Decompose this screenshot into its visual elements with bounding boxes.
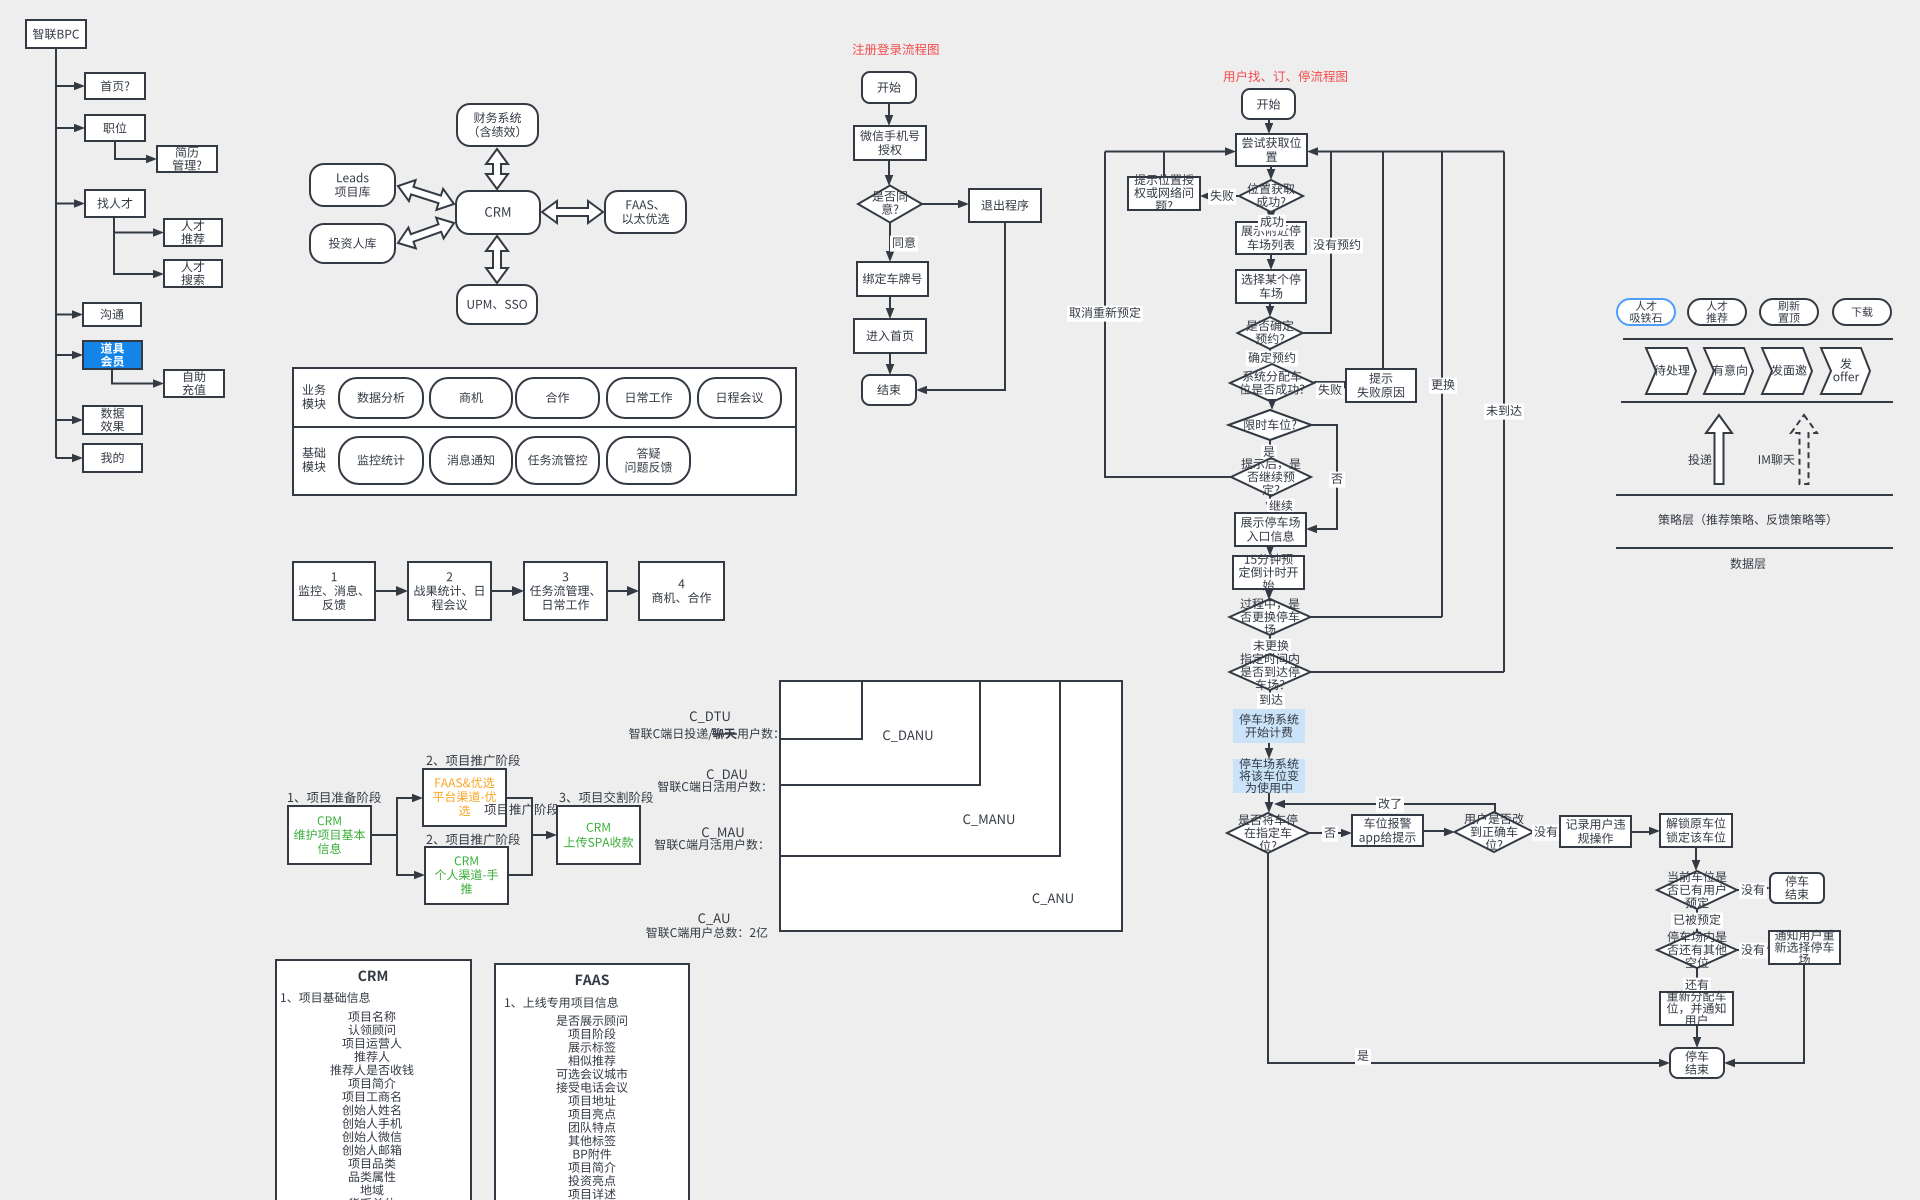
label 改了 bbox=[1376, 797, 1404, 813]
node 重新分配车位并通知用户 bbox=[1660, 992, 1733, 1025]
node Leads项目库 bbox=[310, 164, 395, 206]
node 是否确定预约 bbox=[1238, 317, 1303, 349]
node 提示失败原因 bbox=[1346, 369, 1416, 402]
wire 取消重新预定 loop bbox=[1105, 152, 1231, 478]
wire D2-D3 bbox=[491, 590, 512, 592]
node 绑定车牌号 bbox=[857, 262, 928, 296]
label 没有2 bbox=[1739, 883, 1767, 899]
node UPM、SSO bbox=[457, 285, 537, 324]
label 已被预定 bbox=[1671, 913, 1723, 929]
wire D1-D2 bbox=[375, 590, 396, 592]
node 找人才 bbox=[85, 190, 145, 217]
label 否1 bbox=[1329, 472, 1345, 488]
wire 分配-限时车位 bbox=[1271, 402, 1273, 403]
wire FAAS-合并 bbox=[506, 798, 532, 875]
wire 提示授权-top bbox=[1163, 152, 1165, 178]
node 商机 bbox=[430, 378, 512, 418]
node 人才搜索 bbox=[164, 260, 222, 287]
node 车位报警app给提示 bbox=[1352, 815, 1423, 846]
wire 合并-交割 bbox=[532, 834, 546, 836]
wire 找人才-人才推荐 bbox=[114, 217, 153, 233]
wire 尝试-位置获取成功 bbox=[1270, 166, 1272, 172]
node 进入首页 bbox=[854, 319, 926, 353]
node 停车结束2 bbox=[1670, 1048, 1724, 1078]
node CRM上传SPA收款 bbox=[557, 806, 640, 864]
label 失败 bbox=[1208, 189, 1236, 205]
label 成功 bbox=[1258, 215, 1286, 231]
wire 指定时间-未到达 bbox=[1310, 671, 1504, 673]
node 过程中是否更换停车场 bbox=[1230, 599, 1311, 635]
wire 位置成功-展示列表 bbox=[1270, 212, 1272, 214]
node C_DTU box bbox=[780, 681, 862, 739]
label 投递 bbox=[1688, 454, 1711, 465]
node 提示后是否继续预定 bbox=[1231, 458, 1311, 496]
node 记录用户违规操作 bbox=[1560, 816, 1631, 847]
wire 过程中-更换 bbox=[1310, 616, 1442, 618]
wire 没有预约 loop bbox=[1303, 152, 1331, 334]
wire 空位-还有-重新分配 bbox=[1696, 968, 1698, 984]
wire branch bbox=[56, 85, 75, 87]
node 停车场内是否还有其他空位 bbox=[1657, 932, 1737, 968]
node CRM表 bbox=[276, 960, 471, 1200]
node 退出程序 bbox=[969, 189, 1041, 222]
label 项目推广阶段1 bbox=[427, 754, 520, 766]
wire 用户改-没有-记录违规 bbox=[1534, 831, 1549, 833]
node 数据效果 bbox=[83, 406, 142, 434]
node 有意向 bbox=[1704, 348, 1753, 394]
wire CRM-FAAS bbox=[542, 201, 603, 223]
wire 找人才-人才搜索 bbox=[114, 232, 153, 274]
wire top-right horizontal bbox=[1318, 151, 1504, 153]
node E结束 bbox=[862, 375, 916, 405]
wire CRM-UPM bbox=[486, 236, 508, 283]
wire hr1 bbox=[1623, 338, 1893, 340]
node FAAS表 bbox=[495, 964, 689, 1200]
wire 是否同意-退出程序 bbox=[922, 203, 958, 205]
wire branch bbox=[56, 354, 73, 356]
wire 投资人库-CRM bbox=[398, 218, 454, 249]
wire 退出程序-E结束 bbox=[927, 222, 1005, 390]
wire 展示列表-选择停车场 bbox=[1270, 254, 1272, 261]
wire 职位-简历管理 bbox=[115, 141, 146, 159]
label 项目推广阶段2 bbox=[427, 833, 520, 845]
node 人才吸铁石 bbox=[1617, 299, 1675, 325]
node 当前车位是否已有用户预定 bbox=[1657, 871, 1737, 909]
label 同意 bbox=[890, 236, 918, 252]
node 微信手机号授权 bbox=[854, 126, 926, 160]
label 基础模块 bbox=[302, 447, 325, 458]
wire trunk 智联BPC bbox=[55, 48, 57, 458]
wire 停指定-是-停车结束2 bbox=[1268, 853, 1659, 1063]
label C_DTU bbox=[690, 711, 730, 723]
node 我的 bbox=[83, 444, 142, 472]
node 指定时间内是否到达停车场 bbox=[1230, 654, 1311, 690]
wire 解锁-当前车位 bbox=[1695, 847, 1697, 863]
label C_AU bbox=[698, 913, 729, 925]
wire 财务系统-CRM bbox=[486, 149, 508, 189]
wire D3-D4 bbox=[607, 590, 627, 592]
node 合作 bbox=[516, 378, 599, 418]
label 未更换 bbox=[1251, 639, 1291, 655]
label 用户找订停流程图 bbox=[1223, 70, 1347, 82]
node 人才推荐pill bbox=[1688, 299, 1746, 325]
node 下载 bbox=[1833, 299, 1891, 325]
wire 空位-没有-通知用户 bbox=[1737, 949, 1758, 951]
wire 开始计费-使用中 bbox=[1268, 743, 1270, 751]
wire 确定预约 down bbox=[1269, 349, 1271, 357]
node 提示位置授权或网络问题 bbox=[1128, 177, 1200, 210]
label IM聊天 bbox=[1759, 454, 1795, 465]
wire hr3 bbox=[1616, 494, 1893, 496]
node 待处理 bbox=[1646, 348, 1696, 394]
node CRM个人渠道手推 bbox=[425, 847, 508, 904]
wire branch bbox=[56, 419, 73, 421]
label C_DANU bbox=[883, 730, 932, 742]
label 没有1 bbox=[1532, 825, 1560, 841]
node 日常工作 bbox=[607, 378, 690, 418]
wire branch bbox=[56, 457, 73, 459]
label 注册登录流程图 bbox=[853, 43, 939, 55]
wire 重新分配-停车结束2 bbox=[1696, 1025, 1698, 1040]
node 财务系统(含绩效) bbox=[457, 104, 538, 146]
node 监控统计 bbox=[339, 437, 423, 484]
wire 阶段1-分支 bbox=[371, 798, 412, 835]
wire 停指定-否-车位报警 bbox=[1309, 832, 1341, 834]
label 是2 bbox=[1355, 1049, 1371, 1065]
label 项目推广阶段ghost bbox=[484, 803, 558, 815]
wire 当前-没有-停车结束1 bbox=[1737, 889, 1759, 891]
wire 阶段1-分支下 bbox=[397, 835, 414, 875]
label 没有3 bbox=[1739, 943, 1767, 959]
wire 当前-已被预定 bbox=[1696, 909, 1698, 932]
label 没有预约 bbox=[1311, 238, 1363, 254]
label 否2 bbox=[1322, 826, 1338, 842]
node 停车场系统开始计费 bbox=[1233, 709, 1305, 743]
label 项目准备阶段 bbox=[288, 791, 381, 803]
label C_MAU bbox=[702, 827, 743, 839]
wire 使用中-是否停指定车位 bbox=[1268, 793, 1270, 805]
label 更换 bbox=[1429, 378, 1457, 394]
node FAAS优选平台渠道 bbox=[423, 769, 506, 826]
node 数据分析 bbox=[339, 378, 423, 418]
wire Leads-CRM bbox=[398, 180, 454, 210]
node 2战果统计日程会议 bbox=[408, 562, 491, 620]
node 首页? bbox=[85, 73, 145, 99]
node 人才推荐 bbox=[164, 219, 222, 246]
node 日程会议 bbox=[698, 378, 781, 418]
node 限时车位 bbox=[1229, 410, 1312, 440]
node 15分钟预定倒计时开始 bbox=[1233, 556, 1304, 589]
node 展示附近停车场列表 bbox=[1236, 222, 1306, 254]
wire 继续 down bbox=[1269, 496, 1271, 505]
wire 限时-否-展示入口 bbox=[1311, 425, 1337, 529]
node 答疑问题反馈 bbox=[607, 437, 690, 484]
wire 展示入口-15分钟 bbox=[1269, 546, 1271, 548]
node 沟通 bbox=[83, 303, 141, 326]
node 发面邀 bbox=[1762, 348, 1812, 394]
node 职位 bbox=[85, 115, 145, 141]
node CRM维护项目基本信息 bbox=[288, 806, 371, 864]
node FAAS以太优选 bbox=[605, 191, 686, 233]
wire E开始-微信授权 bbox=[888, 103, 890, 117]
label 还有 bbox=[1683, 978, 1711, 994]
node 消息通知 bbox=[430, 437, 512, 484]
wire hr4 bbox=[1616, 547, 1893, 549]
label 是1 bbox=[1261, 445, 1277, 461]
wire 提示失败原因-top bbox=[1382, 152, 1384, 370]
wire 绑定车牌号-进入首页 bbox=[889, 296, 891, 310]
label 确定预约 bbox=[1246, 351, 1298, 367]
node 发offer bbox=[1821, 348, 1870, 394]
label C_DAU desc bbox=[658, 781, 765, 792]
label C_MAU desc bbox=[655, 839, 762, 850]
node E是否同意 bbox=[858, 186, 922, 223]
wire branch bbox=[56, 203, 75, 205]
node 简历管理? bbox=[157, 146, 217, 172]
wire 更换 riser bbox=[1441, 152, 1443, 618]
label 数据层 bbox=[1730, 558, 1765, 569]
node 任务流管控 bbox=[516, 437, 599, 484]
label C_MANU bbox=[963, 814, 1014, 826]
wire 车位报警-用户是否改 bbox=[1423, 830, 1444, 832]
wire 记录违规-解锁原车位 bbox=[1631, 831, 1649, 833]
label C_DTU desc bbox=[629, 728, 713, 740]
wire branch bbox=[56, 127, 75, 129]
label C_ANU bbox=[1033, 893, 1073, 905]
wire 微信授权-是否同意 bbox=[888, 160, 890, 177]
wire 15分钟-过程中 bbox=[1268, 589, 1270, 592]
node 刷新置顶 bbox=[1760, 299, 1818, 325]
node 投资人库 bbox=[310, 224, 395, 263]
wire 通知用户-停车结束2 bbox=[1735, 964, 1804, 1063]
wire 过程中-未更换-指定时间 bbox=[1269, 635, 1271, 654]
node 投递箭头 bbox=[1706, 415, 1732, 484]
wire 未到达 riser bbox=[1503, 152, 1505, 673]
label 取消重新预定 bbox=[1067, 306, 1143, 322]
wire 选择-是否确定预约 bbox=[1269, 303, 1271, 309]
wire branch bbox=[56, 314, 73, 316]
node 模块表格 bbox=[293, 368, 796, 495]
node C_DANU box bbox=[780, 681, 980, 785]
node F开始 bbox=[1242, 89, 1295, 119]
wire left-尝试获取位置 bbox=[1105, 151, 1225, 153]
node 智联BPC bbox=[26, 20, 86, 48]
label 继续 bbox=[1267, 499, 1295, 515]
wire 改了 loop bbox=[1283, 804, 1495, 812]
wire F开始-尝试获取位置 bbox=[1268, 119, 1270, 126]
label 分配失败 bbox=[1316, 383, 1344, 399]
node E开始 bbox=[862, 72, 916, 103]
node 尝试获取位置 bbox=[1236, 134, 1307, 166]
label 项目交割阶段 bbox=[559, 791, 653, 803]
node 选择某个停车场 bbox=[1236, 270, 1306, 303]
wire 进入首页-E结束 bbox=[889, 353, 891, 366]
label 业务模块 bbox=[303, 384, 326, 395]
node 解锁原车位锁定该车位 bbox=[1660, 814, 1732, 847]
node C_ANU box bbox=[780, 681, 1122, 931]
node 展示停车场入口信息 bbox=[1235, 513, 1306, 546]
node 4商机合作 bbox=[639, 562, 724, 620]
label 策略层 bbox=[1658, 514, 1829, 525]
label C_DAU bbox=[707, 769, 747, 781]
wire hr2 bbox=[1621, 401, 1893, 403]
node 道具会员 bbox=[83, 341, 142, 369]
node 通知用户重新选择停车场 bbox=[1769, 931, 1840, 964]
label 到达 bbox=[1257, 693, 1285, 709]
label C_AU desc bbox=[646, 927, 767, 938]
wire 到达 down bbox=[1269, 690, 1271, 703]
label 未到达 bbox=[1484, 404, 1524, 420]
wire 限时-提示后 bbox=[1269, 440, 1271, 452]
node 用户是否改到正确车位 bbox=[1455, 812, 1534, 852]
node 停车结束1 bbox=[1770, 873, 1824, 903]
node 是否将车停在指定车位 bbox=[1227, 813, 1309, 853]
node CRM bbox=[456, 191, 540, 234]
wire 位置成功-提示授权 失败 bbox=[1210, 195, 1239, 197]
node 系统分配车位是否成功 bbox=[1230, 364, 1314, 402]
wire 道具会员-自助充值 bbox=[112, 369, 153, 384]
node 1监控消息反馈 bbox=[293, 562, 375, 620]
wire 是否同意-绑定车牌号 bbox=[889, 222, 891, 253]
node 自助充值 bbox=[164, 370, 224, 397]
node C_MANU box bbox=[780, 681, 1060, 856]
node IM聊天箭头 bbox=[1791, 415, 1817, 484]
node 停车场系统将该车位变为使用中 bbox=[1233, 759, 1305, 793]
node 3任务流管理日常工作 bbox=[524, 562, 607, 620]
wire 分配失败-提示失败原因 bbox=[1314, 381, 1346, 383]
node 位置获取成功 bbox=[1239, 180, 1303, 212]
